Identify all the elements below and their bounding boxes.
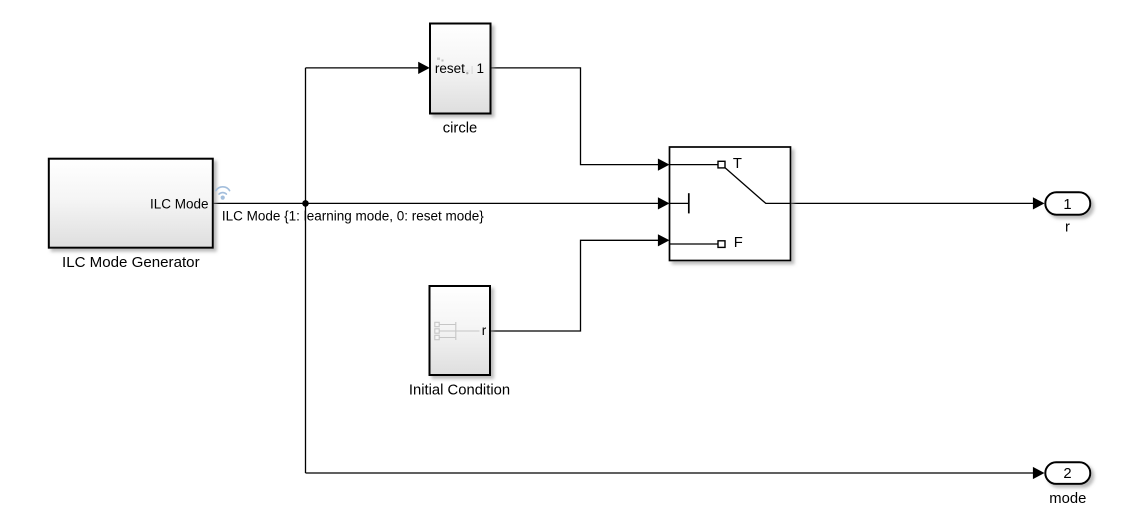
- switch control tick: [670, 202, 689, 204]
- block: circle: [430, 24, 491, 114]
- outport 1: [1045, 192, 1090, 214]
- wire: initial condition output to switch F input: [490, 240, 665, 331]
- wire: branch vertical junction down: [305, 203, 307, 473]
- arrowhead into switch F: [658, 234, 670, 246]
- svg-text:ILC Mode: ILC Mode: [150, 196, 209, 211]
- svg-text:r: r: [1065, 219, 1070, 235]
- wire: horizontal into circle reset input: [306, 67, 427, 69]
- faint inner marks of circle block: [437, 58, 473, 75]
- svg-text:2: 2: [1063, 466, 1071, 482]
- switch lever: [725, 168, 790, 204]
- wire: branch vertical junction up to circle feed: [305, 68, 307, 204]
- svg-text:ILC Mode Generator: ILC Mode Generator: [62, 254, 200, 271]
- svg-text:mode: mode: [1049, 491, 1086, 507]
- svg-text:1: 1: [476, 61, 484, 76]
- block: Initial Condition: [430, 286, 491, 375]
- svg-text:r: r: [482, 323, 487, 338]
- svg-text:reset: reset: [435, 61, 465, 76]
- svg-text:T: T: [733, 156, 742, 172]
- svg-text:1: 1: [1063, 197, 1071, 213]
- svg-text:Initial Condition: Initial Condition: [409, 382, 510, 398]
- arrowhead into switch control: [658, 197, 670, 209]
- wire: generator output to switch control input: [213, 202, 665, 204]
- outport 2: [1045, 462, 1090, 484]
- switch T leg: [670, 164, 719, 166]
- junction dot: [302, 200, 309, 207]
- switch F leg: [670, 243, 719, 245]
- block: ILC Mode Generator: [49, 159, 213, 248]
- arrowhead into outport mode: [1033, 467, 1045, 479]
- block: Switch: [670, 147, 791, 261]
- arrowhead into circle reset: [418, 62, 430, 74]
- arrowhead into outport r: [1033, 197, 1045, 209]
- wire: switch output to r outport: [791, 202, 1041, 204]
- wire: bottom horizontal to mode outport: [306, 472, 1041, 474]
- wire: circle output to switch T input: [491, 68, 666, 165]
- arrowhead into switch T: [658, 159, 670, 171]
- svg-text:circle: circle: [443, 120, 478, 136]
- IC icon: [435, 322, 480, 340]
- svg-text:F: F: [734, 235, 743, 251]
- wireless logging badge: [216, 187, 230, 194]
- svg-text:ILC Mode {1: learning mode, 0:: ILC Mode {1: learning mode, 0: reset mod…: [222, 209, 484, 224]
